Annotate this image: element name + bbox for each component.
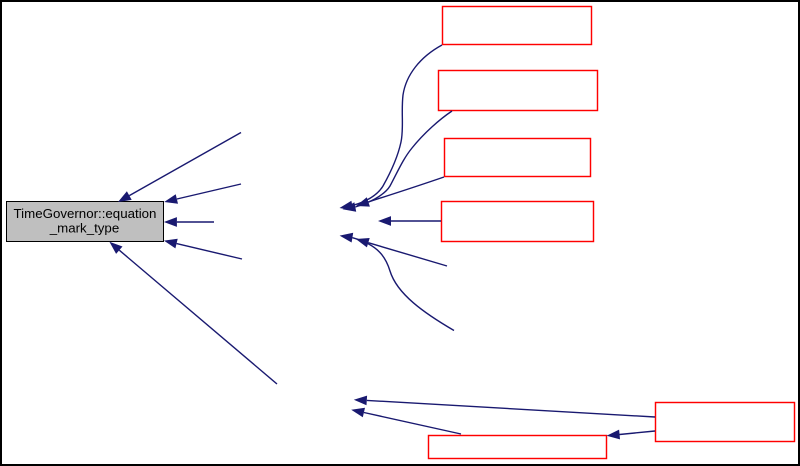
node red box B4 — [442, 202, 594, 242]
arrow Ec to gray box right mid shaft — [177, 221, 214, 223]
node red box B6 — [429, 436, 607, 459]
arrowhead Ea to gray box top — [118, 191, 132, 202]
arrowhead Eb to gray box top-right — [164, 194, 178, 204]
arrow E7 S-curve from below shaft — [352, 238, 454, 331]
arrowhead E4 from box B4 — [378, 216, 391, 226]
arrowhead E6 bare diagonal — [356, 238, 370, 247]
arrowhead C2 from box B2 curving — [343, 202, 357, 212]
arrow E12 long to gray box bottom shaft — [119, 250, 277, 384]
node red box B1 — [443, 7, 592, 45]
arrowhead B5a long from box B5 — [354, 396, 367, 406]
frame border left — [0, 0, 2, 466]
frame border right — [798, 0, 800, 466]
arrow C1 from box B1 curving shaft — [352, 45, 442, 206]
arrow Ea to gray box top shaft — [129, 133, 241, 196]
node TimeGovernor::equation_mark_type (gray box) — [7, 202, 164, 242]
arrow B56 from box B5 to box B6 shaft — [620, 431, 656, 435]
arrow C2 from box B2 curving shaft — [355, 111, 452, 207]
node red box B5 — [656, 403, 795, 442]
arrowhead C3 from box B3 — [356, 197, 370, 206]
arrowhead Ec to gray box right mid — [164, 217, 177, 227]
svg-text:_mark_type: _mark_type — [49, 220, 119, 235]
arrow Eb to gray box top-right shaft — [177, 184, 241, 199]
arrowhead E7 S-curve from below — [340, 233, 354, 243]
svg-text:TimeGovernor::equation: TimeGovernor::equation — [14, 206, 157, 221]
node red box B2 — [439, 71, 598, 111]
arrowhead E12 long to gray box bottom — [109, 242, 122, 254]
arrowhead B6a from box B6 top — [351, 408, 365, 418]
arrow E4 from box B4 shaft — [391, 220, 441, 222]
node red box B3 — [445, 139, 591, 177]
frame border top — [0, 0, 800, 2]
arrowhead B56 from box B5 to box B6 — [607, 430, 620, 440]
arrow Ed to gray box bottom-right shaft — [177, 244, 242, 259]
arrow B6a from box B6 top shaft — [364, 413, 461, 435]
arrowhead C1 from box B1 curving — [340, 201, 354, 211]
frame border bottom — [0, 464, 800, 466]
arrowhead Ed to gray box bottom-right — [164, 239, 178, 249]
arrow E6 bare diagonal shaft — [368, 243, 447, 266]
arrow C3 from box B3 shaft — [368, 177, 444, 202]
arrow B5a long from box B5 shaft — [367, 400, 655, 417]
